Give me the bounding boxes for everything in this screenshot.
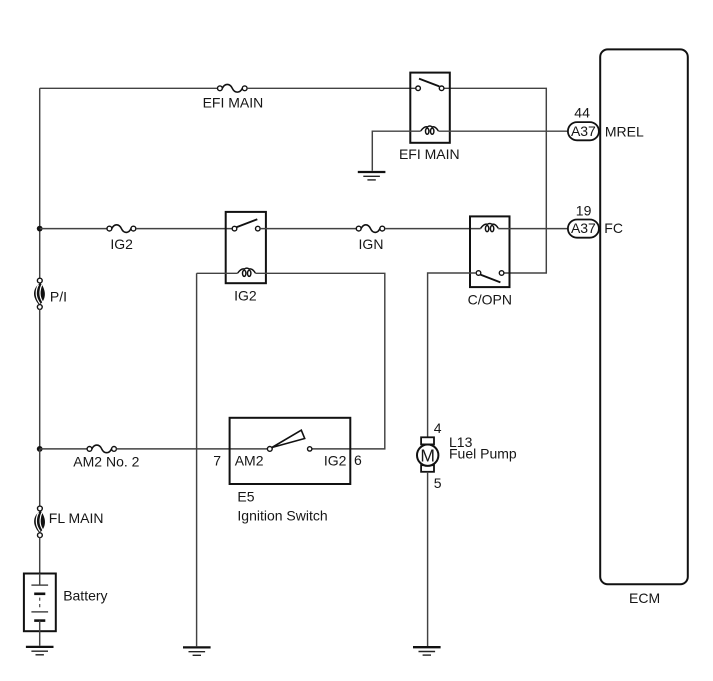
- ground IG2 coil: [183, 647, 211, 655]
- svg-text:EFI MAIN: EFI MAIN: [203, 94, 264, 110]
- svg-text:EFI MAIN: EFI MAIN: [399, 146, 460, 162]
- svg-text:IG2: IG2: [324, 453, 347, 469]
- relay EFI MAIN switch lever: [419, 79, 439, 87]
- ground fuel pump: [413, 647, 441, 655]
- svg-text:AM2 No. 2: AM2 No. 2: [73, 453, 139, 469]
- relay C/OPN contact right: [499, 271, 504, 276]
- connector A37 MREL: [568, 122, 599, 140]
- wire FL MAIN to battery: [39, 537, 41, 585]
- ground EFI MAIN relay: [358, 172, 386, 180]
- wire C/OPN coil to FC oval: [498, 228, 568, 230]
- svg-text:FC: FC: [604, 220, 623, 236]
- relay IG2 switch lever: [236, 219, 257, 227]
- svg-text:P/I: P/I: [50, 289, 67, 305]
- wire IG2 relay to IGN fuse: [260, 228, 356, 230]
- relay EFI MAIN contact right: [439, 86, 444, 91]
- wire EFI MAIN relay to C/OPN switch (right vertical): [444, 88, 546, 273]
- svg-text:AM2: AM2: [235, 453, 264, 469]
- wire node to FL MAIN: [39, 449, 41, 506]
- wire C/OPN switch to fuel pump: [428, 273, 477, 437]
- ignition switch contact AM2: [267, 447, 272, 452]
- wire left rail P/I to node: [39, 309, 41, 449]
- wire EFI MAIN coil to ground stub: [372, 131, 420, 171]
- noise filter FL MAIN: [34, 506, 45, 537]
- svg-text:ECM: ECM: [629, 590, 660, 606]
- relay C/OPN coil: [481, 223, 499, 231]
- svg-text:IGN: IGN: [359, 236, 384, 252]
- fuse IGN: [356, 225, 384, 233]
- svg-text:E5: E5: [237, 489, 254, 505]
- svg-text:19: 19: [576, 202, 592, 218]
- svg-text:M: M: [420, 445, 435, 465]
- wire IGN fuse to C/OPN coil: [385, 228, 481, 230]
- wire battery to ground: [39, 631, 41, 646]
- svg-text:A37: A37: [571, 220, 596, 236]
- wire fuse to EFI MAIN relay: [247, 87, 416, 89]
- connector A37 FC: [568, 220, 599, 238]
- noise filter P/I: [34, 278, 45, 309]
- wire IG2 fuse to IG2 relay contact: [136, 228, 232, 230]
- fuse EFI MAIN: [218, 84, 248, 92]
- svg-text:A37: A37: [571, 123, 596, 139]
- ignition switch contact IG2: [308, 447, 312, 451]
- svg-text:7: 7: [213, 452, 221, 468]
- relay EFI MAIN coil: [421, 126, 439, 134]
- wire left rail top: [39, 88, 41, 278]
- wire top bus left segment: [40, 87, 218, 89]
- ECM box: [600, 49, 688, 584]
- wire AM2 fuse to ignition switch: [116, 448, 267, 450]
- relay IG2 contact right: [255, 226, 260, 231]
- svg-text:MREL: MREL: [605, 124, 644, 140]
- fuse AM2 No. 2: [87, 445, 116, 453]
- svg-text:IG2: IG2: [110, 236, 133, 252]
- svg-text:5: 5: [434, 475, 442, 491]
- relay C/OPN switch lever: [480, 275, 500, 283]
- relay EFI MAIN box: [410, 73, 450, 143]
- ignition switch E5 box: [230, 418, 351, 484]
- relay C/OPN contact left: [476, 271, 481, 276]
- wire IG2 bus: node to fuse: [40, 228, 107, 230]
- relay C/OPN box: [470, 216, 510, 287]
- wire AM2 bus: node to fuse: [40, 448, 87, 450]
- relay EFI MAIN contact left: [416, 86, 421, 91]
- svg-text:44: 44: [574, 104, 590, 120]
- svg-text:Fuel Pump: Fuel Pump: [449, 446, 517, 462]
- wire fuel pump to ground: [427, 472, 429, 646]
- svg-text:6: 6: [354, 452, 362, 468]
- relay IG2 box: [226, 212, 266, 283]
- wire IG2 relay coil line: [197, 272, 238, 274]
- svg-text:4: 4: [434, 420, 442, 436]
- wire EFI MAIN coil to MREL oval: [438, 130, 568, 132]
- svg-text:C/OPN: C/OPN: [468, 291, 512, 307]
- wire IG2 coil to ground (left vertical): [196, 273, 198, 646]
- node junction AM2 wire: [37, 446, 43, 452]
- ground battery: [26, 647, 54, 655]
- svg-text:IG2: IG2: [234, 287, 257, 303]
- svg-text:Ignition Switch: Ignition Switch: [237, 508, 327, 524]
- fuel pump L13 motor: [417, 437, 438, 472]
- wire IG2 coil to pin6 vertical: [255, 273, 384, 449]
- svg-text:Battery: Battery: [63, 588, 107, 604]
- relay IG2 contact left: [232, 226, 237, 231]
- svg-text:FL MAIN: FL MAIN: [49, 510, 104, 526]
- node junction IG2 wire: [37, 226, 43, 232]
- relay IG2 coil: [238, 268, 256, 276]
- battery: [24, 574, 56, 632]
- ignition switch lever: [272, 430, 305, 447]
- fuse IG2: [107, 225, 136, 233]
